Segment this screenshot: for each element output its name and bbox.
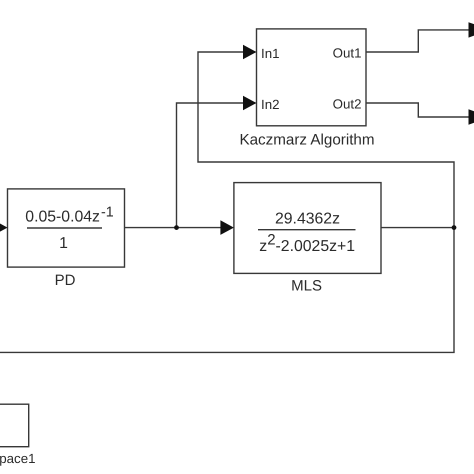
arrowhead into In1 (243, 45, 257, 60)
svg-text:Out1: Out1 (333, 46, 362, 61)
svg-text:1: 1 (59, 235, 68, 252)
big output arrowhead 2 (469, 109, 474, 124)
block PD (8, 189, 125, 267)
svg-text:-1: -1 (101, 205, 114, 221)
block MLS (234, 183, 381, 274)
MLS fraction bar (258, 229, 356, 231)
wire MLS output to node B (381, 227, 454, 229)
wire feedback node B down and left (0, 228, 454, 353)
svg-text:Workspace1: Workspace1 (0, 451, 36, 466)
block To Workspace1 (0, 404, 29, 447)
big output arrowhead 1 (469, 22, 474, 37)
svg-text:In1: In1 (261, 46, 280, 61)
wire Out2 to output arrow 2 (366, 103, 469, 117)
svg-text:In2: In2 (261, 97, 280, 112)
subsystem block U1 Kaczmarz Algorithm (257, 29, 367, 126)
wire node B up and left to In1 (198, 52, 454, 228)
PD fraction bar (27, 227, 102, 229)
svg-text:Kaczmarz Algorithm: Kaczmarz Algorithm (239, 132, 374, 149)
wire PD output to MLS (125, 227, 222, 229)
svg-text:29.4362z: 29.4362z (275, 210, 340, 227)
svg-text:0.05-0.04z: 0.05-0.04z (25, 208, 100, 225)
svg-text:MLS: MLS (291, 278, 322, 295)
arrowhead into In2 (243, 96, 257, 111)
svg-text:PD: PD (55, 272, 76, 289)
arrowhead into MLS input (220, 220, 234, 235)
wire node A up to In2 (177, 103, 244, 228)
svg-text:Out2: Out2 (333, 97, 362, 112)
junction node A (174, 225, 179, 230)
junction node B (452, 225, 457, 230)
wire Out1 to output arrow 1 (366, 30, 469, 52)
arrowhead into PD input (0, 220, 8, 235)
